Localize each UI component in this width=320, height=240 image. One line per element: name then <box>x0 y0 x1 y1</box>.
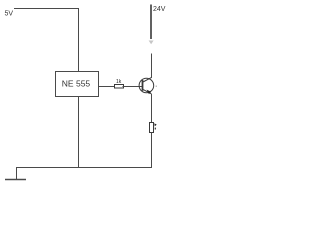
resistor R1 1k horizontal <box>115 85 124 89</box>
wire 5V down to NE555 pin <box>78 8 80 72</box>
node base-right artifact dot <box>156 86 157 87</box>
ground stub <box>16 167 18 180</box>
svg-text:5V: 5V <box>5 11 14 18</box>
node 24V arrowhead <box>149 41 154 45</box>
node 24V supply stub <box>150 5 152 40</box>
transistor Q1 NPN <box>139 78 154 95</box>
svg-text:1k: 1k <box>116 79 122 85</box>
wire resistor to base <box>123 86 143 88</box>
wire bottom rail <box>16 167 152 169</box>
svg-text:NE 555: NE 555 <box>62 79 91 89</box>
wire emitter down <box>151 94 153 123</box>
wire NE555 bottom pin down <box>78 97 80 169</box>
wire collector up <box>151 54 153 79</box>
resistor R2 vertical <box>150 123 154 133</box>
resistor R2 label marks <box>154 123 156 126</box>
wire resistor R2 to bottom rail <box>151 133 153 169</box>
op-amp U1 NE 555 box <box>56 72 99 97</box>
wire NE555 output to resistor <box>99 86 115 88</box>
svg-text:24V: 24V <box>153 6 166 13</box>
wire 5V horizontal top <box>14 8 79 10</box>
ground bar <box>5 179 26 181</box>
